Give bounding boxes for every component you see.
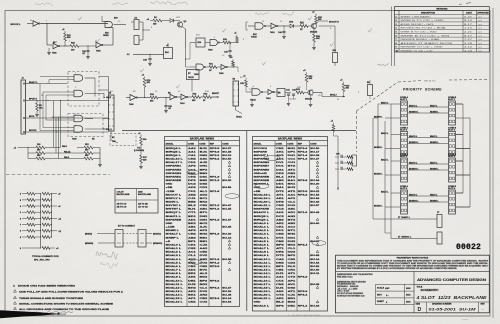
svg-text:10K: 10K	[316, 38, 320, 40]
svg-text:BU-37: BU-37	[222, 219, 232, 221]
svg-text:74132: 74132	[250, 99, 257, 102]
wire Q3 emitter down	[182, 27, 186, 49]
svg-text:BDAL10 L: BDAL10 L	[166, 279, 184, 282]
label 7408 E5	[72, 138, 95, 141]
resistor R41	[300, 21, 308, 31]
svg-text:BDAL15 L: BDAL15 L	[166, 297, 184, 300]
svg-text:CONN: CONN	[188, 143, 195, 145]
svg-text:BACKPLANE: BACKPLANE	[138, 193, 151, 196]
svg-text:RP2-9: RP2-9	[210, 266, 221, 268]
svg-text:MOVED R5 TO E2 + BDAL: MOVED R5 TO E2 + BDAL	[401, 27, 449, 30]
connector K1 contact a	[131, 18, 143, 30]
svg-text:BDAL19 L: BDAL19 L	[254, 197, 272, 200]
wire BHALT right	[313, 93, 345, 98]
svg-text:BU-54: BU-54	[310, 197, 320, 200]
transistor Q5	[304, 89, 313, 100]
svg-text:BSPARE6: BSPARE6	[254, 161, 271, 164]
gate E8b	[177, 94, 188, 105]
resistor R42	[296, 88, 304, 94]
svg-text:BDAL20 L: BDAL20 L	[254, 294, 272, 297]
svg-text:BACKPLANE: BACKPLANE	[117, 193, 130, 196]
wire BOCOK H	[316, 21, 339, 23]
svg-text:BU-11: BU-11	[310, 273, 320, 275]
svg-text:BU-38: BU-38	[310, 284, 320, 286]
svg-text:BU-37: BU-37	[222, 148, 232, 150]
capacitor C42	[289, 89, 297, 100]
svg-text:BY WRITTEN PERMISSION SIGNED B: BY WRITTEN PERMISSION SIGNED BY A DULY A…	[337, 267, 457, 270]
capacitor C44	[278, 26, 286, 39]
resistor R33 pullup	[303, 70, 313, 90]
wire K1 common	[142, 22, 150, 40]
svg-text:BU-57: BU-57	[310, 205, 320, 207]
svg-text:RP1-2: RP1-2	[210, 180, 221, 182]
node +5 rail	[14, 147, 37, 159]
svg-text:BDAL1 L: BDAL1 L	[254, 226, 270, 229]
svg-text:BU-22: BU-22	[310, 191, 320, 193]
svg-text:GND+HD: GND+HD	[254, 173, 268, 175]
IC E7 74123	[187, 70, 200, 92]
svg-text:BTL 5: BTL 5	[106, 129, 113, 131]
svg-text:SCALE: SCALE	[377, 287, 385, 290]
svg-text:BDAL16 L: BDAL16 L	[166, 158, 184, 161]
svg-text:BDAL16 L: BDAL16 L	[166, 301, 184, 304]
wire BDCL from J1	[29, 116, 59, 118]
revision table margin lines	[392, 7, 395, 67]
svg-text:BU-14: BU-14	[310, 258, 320, 261]
resistor R39 pullup	[312, 12, 323, 25]
svg-text:RP3-9: RP3-9	[210, 148, 221, 150]
svg-text:MSPAREA: MSPAREA	[166, 175, 182, 178]
gate E18	[217, 65, 233, 75]
svg-text:BSYNC L: BSYNC L	[166, 205, 182, 207]
svg-text:REVISIONS: REVISIONS	[436, 9, 448, 11]
svg-text:BACKPLANE WIRING: BACKPLANE WIRING	[278, 138, 302, 141]
svg-text:HALT: HALT	[106, 96, 112, 99]
svg-text:BDAL17 L: BDAL17 L	[254, 283, 272, 286]
svg-text:BDAL6 L: BDAL6 L	[254, 304, 270, 307]
svg-text:BDMGI L: BDMGI L	[374, 205, 383, 207]
svg-text:DM2: DM2	[200, 155, 209, 157]
svg-text:..........: ..........	[462, 318, 468, 320]
resistor row RP pin 5	[20, 217, 62, 220]
svg-text:BDAL1 L: BDAL1 L	[166, 247, 182, 250]
svg-text:(BDMGO): (BDMGO)	[153, 243, 163, 245]
svg-text:BU-20: BU-20	[222, 180, 232, 182]
resistor R38	[312, 29, 320, 50]
svg-text:BU-53: BU-53	[310, 194, 320, 196]
svg-text:RP3-2: RP3-2	[298, 277, 309, 279]
svg-text:TITLE: TITLE	[417, 286, 423, 288]
svg-text:DESCRIPTION: DESCRIPTION	[421, 12, 436, 14]
svg-text:74132: 74132	[251, 35, 258, 38]
svg-text:RP1-6: RP1-6	[210, 209, 221, 211]
wire BEVNT	[212, 93, 220, 98]
svg-text:BCCOKH: BCCOKH	[254, 148, 268, 150]
resistor R4	[150, 16, 162, 26]
svg-text:BU-58: BU-58	[310, 255, 320, 257]
svg-text:BU-38: BU-38	[310, 155, 320, 157]
wire E4 gate links	[99, 77, 109, 130]
svg-text:BU-28: BU-28	[222, 259, 232, 261]
svg-text:BDAL9 L: BDAL9 L	[166, 276, 182, 279]
connector 2T box a	[437, 212, 442, 228]
svg-text:BSPARE8: BSPARE8	[254, 168, 271, 171]
svg-text:SURFACE ROUGHNESS 125: SURFACE ROUGHNESS 125	[337, 294, 365, 297]
svg-text:BREF L: BREF L	[166, 237, 180, 239]
resistor R34	[201, 92, 212, 102]
svg-text:RP1-1: RP1-1	[298, 305, 309, 307]
svg-text:BU-50: BU-50	[310, 148, 320, 150]
svg-text:RP1-9: RP1-9	[210, 176, 221, 178]
gate E17a	[205, 40, 220, 52]
svg-text:SIGNAL CONNECTIONS SHOWN TO IN: SIGNAL CONNECTIONS SHOWN TO INDICATE GEN…	[19, 302, 114, 305]
wire R16 to E8	[158, 97, 170, 98]
svg-text:BDAL10 L: BDAL10 L	[254, 258, 272, 261]
ground of resistor rows	[70, 148, 102, 167]
resistor RM2 200	[36, 149, 70, 154]
svg-text:BDAL4 L: BDAL4 L	[166, 258, 182, 261]
svg-text:BSPARE: BSPARE	[254, 150, 268, 153]
capacitor C29	[82, 46, 90, 59]
svg-text:RP2-2: RP2-2	[210, 159, 221, 161]
svg-text:BU-43: BU-43	[310, 211, 320, 214]
svg-text:BU-14: BU-14	[222, 297, 232, 300]
svg-text:BDAL18 L: BDAL18 L	[254, 193, 272, 196]
svg-text:AB TO CD: AB TO CD	[117, 205, 127, 208]
svg-text:BIRQ6 L: BIRQ6 L	[254, 219, 271, 221]
svg-text:ADDED RES NET + CAPS: ADDED RES NET + CAPS	[401, 23, 435, 26]
wire 2T BIAKO	[373, 216, 437, 219]
svg-text:BIAKI L: BIAKI L	[430, 161, 438, 164]
pencil mark top right corner	[459, 3, 471, 5]
gate E10 75452	[103, 22, 120, 37]
wire to E3	[233, 67, 238, 72]
svg-text:01-05-2001 SU-1M: 01-05-2001 SU-1M	[429, 306, 477, 311]
svg-text:RP1-9: RP1-9	[210, 259, 221, 261]
resistor row RP pin 8	[20, 236, 52, 239]
priority interconnect wires	[374, 101, 470, 207]
svg-text:BDAL3 L: BDAL3 L	[254, 233, 270, 236]
svg-text:RP1-4: RP1-4	[298, 154, 309, 157]
svg-text:BDAL8 L: BDAL8 L	[254, 251, 270, 254]
svg-text:BIAKI L: BIAKI L	[430, 135, 438, 138]
svg-text:BU-52: BU-52	[310, 266, 320, 268]
wedge dot	[57, 313, 59, 315]
svg-text:AM2: AM2	[188, 193, 197, 196]
priority daisy chain verticals	[456, 104, 471, 207]
svg-text:BIAKI L: BIAKI L	[430, 193, 438, 196]
svg-text:SIZE: SIZE	[416, 303, 421, 305]
svg-text:BEVNT: BEVNT	[212, 93, 220, 95]
svg-text:SIGNAL: SIGNAL	[166, 142, 175, 145]
pencil scribble mid 2	[100, 262, 118, 268]
svg-text:BDAL2 L: BDAL2 L	[254, 229, 270, 232]
svg-text:RP3-9: RP3-9	[210, 151, 221, 153]
svg-text:BDCOK L: BDCOK L	[11, 24, 22, 26]
svg-text:BU-54: BU-54	[310, 261, 320, 264]
resistor row RP pin 6	[20, 211, 52, 214]
svg-text:BDMGO L: BDMGO L	[409, 200, 419, 202]
svg-text:REF: REF	[210, 143, 215, 145]
svg-text:BU-48: BU-48	[222, 294, 232, 297]
svg-text:SHEET 1 RELEASED: SHEET 1 RELEASED	[401, 15, 432, 18]
svg-text:RP1-9: RP1-9	[298, 159, 309, 161]
svg-text:BDMGI L: BDMGI L	[430, 168, 439, 170]
svg-text:RP1-9: RP1-9	[210, 219, 221, 221]
connector J1 slot bar	[21, 78, 29, 135]
wire 2T BDMGO	[385, 233, 437, 239]
svg-text:4 - IN-PROCESS NOTES: 4 - IN-PROCESS NOTES	[288, 315, 321, 317]
connector E3 tall box	[233, 79, 239, 107]
review oval marks on tables	[187, 156, 326, 265]
svg-text:BDAL14 L: BDAL14 L	[166, 294, 184, 297]
svg-text:RP1-2: RP1-2	[210, 205, 221, 207]
svg-text:MSPAREB: MSPAREB	[166, 218, 182, 221]
svg-text:+5B: +5B	[166, 187, 173, 189]
svg-text:BHALT L: BHALT L	[166, 233, 182, 236]
wire BIAKI to BT boxes	[85, 232, 161, 235]
node TYPICAL SCHEMATIC label	[32, 255, 59, 262]
svg-text:BDIN L: BDIN L	[166, 202, 180, 204]
svg-text:BDOUT L: BDOUT L	[166, 194, 182, 196]
ground at E9	[47, 48, 51, 55]
transistor Q4 2N4123	[308, 23, 318, 34]
svg-text:TYPICAL SCHEMATIC FOR: TYPICAL SCHEMATIC FOR	[32, 255, 59, 258]
gate E9b 7406	[96, 42, 113, 52]
diode CR2	[162, 19, 180, 23]
wire BDCL extension to E4	[58, 117, 109, 118]
svg-text:BDMGI L: BDMGI L	[430, 200, 439, 202]
resistor R17 390	[134, 137, 147, 155]
svg-text:D: D	[418, 307, 422, 313]
wire BDCOK from J1	[29, 130, 57, 132]
bus verticals to pull resistor rows	[54, 101, 61, 159]
svg-text:RP3-2: RP3-2	[298, 194, 309, 196]
connector E4	[109, 92, 115, 132]
revision table	[395, 7, 490, 53]
svg-text:BT TO CONNECT: BT TO CONNECT	[118, 226, 136, 228]
svg-text:BIAKI L: BIAKI L	[430, 104, 438, 107]
svg-text:BDAL6 L: BDAL6 L	[166, 265, 182, 268]
resistor R21 pullup +5	[62, 29, 72, 41]
svg-text:DM1: DM1	[200, 219, 209, 221]
svg-text:BSSPARE: BSSPARE	[254, 208, 270, 211]
resistor row RP pin 5	[20, 199, 52, 202]
svg-text:BU-34: BU-34	[310, 179, 320, 182]
svg-text:RP3-6: RP3-6	[298, 291, 309, 293]
transistor Q3	[177, 21, 187, 28]
capacitor resistor pair group	[335, 154, 353, 171]
svg-text:WGT: WGT	[377, 294, 383, 296]
svg-text:RM-1: RM-1	[62, 146, 68, 148]
inverter E13b	[263, 90, 280, 101]
svg-text:BU-27: BU-27	[222, 287, 232, 289]
svg-text:RP3-4: RP3-4	[298, 147, 309, 150]
svg-text:CM1: CM1	[188, 302, 197, 304]
inverter E10a	[27, 21, 40, 27]
svg-text:GND: GND	[166, 223, 173, 225]
gate E12a 74132	[248, 23, 266, 39]
svg-text:ALL GROUNDS ARE COMMON TO THE: ALL GROUNDS ARE COMMON TO THE GROUND PLA…	[19, 308, 110, 311]
svg-text:DM2: DM2	[276, 262, 285, 264]
misc designator labels	[30, 17, 360, 127]
svg-text:BDAL16 L: BDAL16 L	[254, 279, 272, 282]
svg-text:THESE SIGNALS ARE BUSSED TOGET: THESE SIGNALS ARE BUSSED TOGETHER	[19, 297, 84, 300]
wiring table T1 rows	[166, 147, 233, 304]
connector CONN A SLOT 2	[400, 127, 409, 156]
resistor row RP pin 3	[20, 192, 61, 195]
svg-text:BDAL7 L: BDAL7 L	[254, 247, 270, 250]
svg-text:LMC: LMC	[385, 288, 390, 290]
connector CONN A SLOT 1	[400, 96, 409, 125]
resistor array bottom row	[20, 247, 59, 251]
resistor R16	[150, 94, 158, 103]
svg-text:BDAL20 L: BDAL20 L	[254, 201, 272, 204]
connector BT box right	[138, 230, 146, 248]
svg-text:SHEET: SHEET	[377, 301, 385, 303]
title rows	[414, 284, 489, 300]
wire E4 bottom	[111, 131, 118, 143]
svg-text:BIRQ4 L: BIRQ4 L	[166, 147, 183, 150]
wire E9c out	[137, 97, 150, 98]
svg-text:BU-47: BU-47	[222, 204, 232, 207]
resistor R23	[188, 93, 201, 102]
svg-text:SSPARE3: SSPARE3	[166, 172, 183, 175]
svg-text:00022: 00022	[456, 243, 481, 252]
svg-text:4 SLOT: 4 SLOT	[117, 191, 125, 194]
svg-text:TBL 12 7+2: TBL 12 7+2	[424, 80, 436, 82]
svg-text:REV: REV	[481, 303, 486, 305]
svg-text:-12B: -12B	[166, 191, 176, 193]
svg-text:RP3-8: RP3-8	[298, 180, 309, 182]
svg-text:BDAL11 L: BDAL11 L	[254, 261, 272, 264]
gate E9c 7406	[126, 95, 137, 106]
svg-text:RP2-2: RP2-2	[210, 155, 221, 157]
svg-text:AB TO CD: AB TO CD	[117, 203, 127, 206]
svg-text:CONN: CONN	[310, 143, 317, 145]
wire BDMGI to BT boxes	[85, 243, 163, 245]
svg-text:PROPRIETARY RIGHTS NOTICE: PROPRIETARY RIGHTS NOTICE	[397, 256, 429, 259]
resistor RM3 680	[36, 155, 70, 160]
dashed boundary priority	[356, 80, 489, 153]
wiring table T2 frame	[253, 137, 328, 312]
svg-text:BU-26: BU-26	[222, 291, 232, 293]
svg-text:RP2-4: RP2-4	[298, 243, 309, 246]
svg-text:BRPLY L: BRPLY L	[166, 198, 183, 200]
note 2 with triangle	[14, 290, 124, 294]
wire R22 to E?	[79, 45, 96, 46]
connector K1 contact b	[134, 36, 143, 45]
resistor R18 220	[139, 155, 147, 169]
priority left feed verticals	[373, 104, 391, 239]
svg-text:BIRQ7 L: BIRQ7 L	[166, 212, 183, 214]
diode CR4	[289, 21, 300, 28]
note 1	[13, 285, 76, 288]
svg-text:(BIAKO): (BIAKO)	[153, 232, 161, 235]
black wedge mark	[0, 310, 59, 318]
svg-text:BDAL9 L: BDAL9 L	[254, 254, 270, 257]
connector CONN A SLOT 4	[400, 185, 409, 214]
resistor row RP pin 7	[20, 223, 52, 226]
connector CONN B SLOT 3	[448, 154, 457, 182]
resistor row RP pin 4	[20, 205, 61, 208]
svg-text:CONN: CONN	[276, 143, 283, 145]
svg-text:BDAL19 L: BDAL19 L	[254, 290, 272, 293]
svg-text:(LOADED): (LOADED)	[134, 149, 144, 152]
connector BT box left	[115, 230, 123, 248]
svg-text:BWTBT L: BWTBT L	[166, 209, 182, 211]
wire BDCOK extension	[56, 131, 109, 132]
svg-text:CM2: CM2	[276, 241, 285, 243]
svg-text:g.w.: g.w.	[479, 51, 483, 53]
svg-text:BDMGI L: BDMGI L	[430, 142, 439, 144]
svg-text:RP1-2: RP1-2	[210, 262, 221, 264]
IC E6 7414 box	[277, 89, 285, 97]
capacitor C41	[285, 89, 291, 100]
svg-text:DATE: DATE	[466, 11, 472, 14]
svg-text:BDAL11 L: BDAL11 L	[166, 283, 184, 286]
capacitor C30	[164, 98, 172, 113]
table backplane compare	[115, 189, 158, 214]
connector CONN B SLOT 2	[448, 128, 457, 156]
inverter E8a 7414	[168, 93, 177, 100]
svg-text:ODB PULL-UP AND PULL DOWN RESI: ODB PULL-UP AND PULL DOWN RESISTOR VALUE…	[19, 290, 124, 293]
svg-text:BIAKO L: BIAKO L	[409, 135, 418, 138]
resistor array bus verticals	[41, 194, 52, 248]
svg-text:BDAL5 L: BDAL5 L	[254, 240, 270, 243]
gate E17b lower	[190, 64, 206, 76]
wiring table T1 frame	[165, 137, 240, 307]
svg-text:RP2-5: RP2-5	[298, 191, 309, 193]
signature scribble	[377, 64, 389, 66]
svg-text:BDAL8 L: BDAL8 L	[166, 272, 182, 275]
svg-text:RP1-6: RP1-6	[298, 212, 309, 214]
svg-text:BDAL15 L: BDAL15 L	[254, 276, 272, 279]
junction wires BPOK	[246, 22, 335, 47]
svg-text:BU-54: BU-54	[222, 301, 232, 304]
svg-text:BU-30: BU-30	[222, 234, 232, 236]
svg-text:PRIORITY SCHEME: PRIORITY SCHEME	[403, 88, 442, 92]
svg-text:2N4123: 2N4123	[305, 98, 313, 101]
svg-text:--: --	[482, 307, 484, 311]
svg-text:BDAL13 L: BDAL13 L	[254, 269, 272, 272]
gate E9 7406	[52, 42, 60, 55]
wire BHALT L from J1	[29, 81, 68, 84]
resistor network C45 R44	[240, 76, 247, 93]
connector E15 box	[367, 80, 373, 99]
resistor RM1 200	[36, 144, 61, 149]
svg-text:BU-35: BU-35	[222, 227, 232, 229]
resistor pullup near table	[331, 121, 339, 191]
connector CONN B SLOT 4	[448, 186, 457, 214]
svg-text:BDAL21 L: BDAL21 L	[254, 297, 272, 300]
svg-text:SIGNAL: SIGNAL	[254, 142, 263, 145]
connector box right of tables	[352, 155, 357, 166]
svg-text:RP2-3: RP2-3	[298, 151, 309, 153]
svg-text:BU-14: BU-14	[222, 236, 232, 239]
svg-text:MSPAREB: MSPAREB	[254, 175, 270, 178]
svg-text:2T BIAKO L: 2T BIAKO L	[398, 216, 411, 219]
wire section divider horizontal	[122, 130, 356, 132]
svg-text:BDMGO L: BDMGO L	[409, 142, 419, 144]
svg-text:REWIRE TO C/D + 5.0V: REWIRE TO C/D + 5.0V	[401, 51, 434, 53]
svg-text:CONN: CONN	[287, 143, 294, 145]
scale box rows	[376, 284, 415, 304]
svg-text:RP3-4: RP3-4	[298, 294, 309, 297]
svg-text:RP3-4: RP3-4	[210, 297, 221, 300]
svg-text:BACKPLANE WIRING: BACKPLANE WIRING	[190, 138, 214, 141]
connector E11 box	[333, 47, 338, 66]
